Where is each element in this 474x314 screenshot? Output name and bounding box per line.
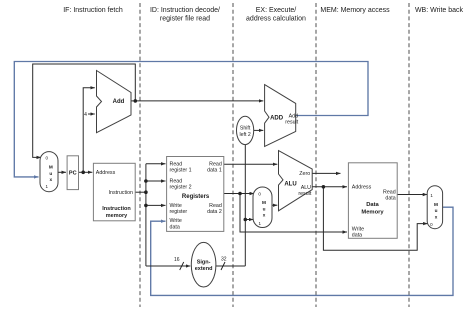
wire sign-extend to ALU mux input 1 — [245, 219, 253, 221]
wire PC mux to PC — [58, 171, 67, 173]
svg-text:left 2: left 2 — [239, 132, 250, 138]
mux M2 (ALU source) — [253, 187, 272, 228]
wire PC+4 feedback to PC mux input 0 — [33, 64, 136, 157]
svg-text:Instruction: Instruction — [109, 190, 133, 196]
svg-text:Shift: Shift — [240, 125, 251, 131]
svg-text:register: register — [170, 209, 188, 215]
svg-text:data: data — [352, 233, 362, 239]
junction ALU result — [322, 185, 326, 189]
svg-text:M: M — [49, 165, 53, 170]
wire read data 1 to ALU — [224, 163, 277, 165]
junction Add output — [134, 99, 138, 103]
wire to sign-extend — [146, 265, 190, 267]
wire data memory read data to WB mux input 1 — [397, 194, 427, 196]
svg-text:Address: Address — [96, 170, 116, 176]
ALU — [279, 151, 313, 211]
wire Add output stub — [131, 100, 135, 102]
svg-text:Instruction: Instruction — [102, 206, 131, 212]
svg-text:u: u — [263, 206, 266, 211]
svg-text:MEM: Memory access: MEM: Memory access — [320, 7, 390, 14]
svg-text:IF: Instruction fetch: IF: Instruction fetch — [63, 7, 123, 14]
svg-text:data 2: data 2 — [207, 209, 222, 215]
svg-text:u: u — [435, 208, 438, 213]
svg-text:ALU: ALU — [284, 181, 296, 187]
junction instruction bus instruction — [144, 190, 148, 194]
svg-text:register 2: register 2 — [170, 185, 192, 191]
mux M1 (PC source) — [40, 152, 58, 192]
shift left 2 unit — [237, 116, 254, 144]
wire to write register — [146, 204, 166, 206]
wire write-back (blue): WB mux output to Registers write data — [151, 207, 453, 295]
wire 4 to Add input — [88, 113, 95, 115]
wire shift left 2 to branch adder — [254, 129, 264, 131]
wire ALU result to data memory address — [312, 186, 347, 188]
stage divider MEM/WB — [408, 3, 410, 307]
wire sign-extend bus vertical up to shift left 2 — [244, 145, 246, 266]
svg-text:register 1: register 1 — [170, 168, 192, 174]
svg-text:register file read: register file read — [160, 16, 210, 23]
wire ALU result bypass to WB mux input 0 — [323, 187, 427, 251]
svg-text:PC: PC — [69, 170, 77, 176]
svg-text:x: x — [435, 214, 438, 219]
svg-text:result: result — [285, 119, 298, 125]
wire ALU mux to ALU lower input — [272, 204, 278, 206]
stage divider ID/EX — [232, 3, 234, 307]
wire ALU zero output — [312, 172, 340, 174]
svg-text:data: data — [385, 195, 395, 201]
svg-text:Address: Address — [352, 184, 372, 190]
adder Add (PC+4) — [97, 71, 132, 133]
instruction memory — [93, 163, 135, 221]
svg-text:data: data — [170, 225, 180, 231]
junction sign-extend bus — [244, 218, 248, 222]
junction instruction bus read reg 2 — [144, 179, 148, 183]
svg-text:x: x — [263, 213, 266, 218]
wire sign-extend output to bus — [216, 265, 245, 267]
svg-text:Read: Read — [170, 178, 183, 184]
wire to read register 1 — [146, 163, 166, 165]
svg-text:extend: extend — [195, 266, 213, 272]
svg-text:Read: Read — [170, 161, 183, 167]
wire PC up to Add input — [83, 88, 95, 173]
mux M3 (write-back source) — [427, 186, 442, 229]
wire instruction memory output to instruction bus — [135, 191, 146, 193]
register PC — [67, 156, 78, 190]
wire PC to instruction memory address — [79, 171, 93, 173]
sign-extend unit — [191, 242, 216, 287]
svg-text:u: u — [49, 171, 52, 176]
svg-text:x: x — [49, 177, 52, 182]
data memory — [348, 163, 397, 239]
registers — [167, 157, 224, 232]
svg-text:memory: memory — [106, 213, 128, 219]
svg-text:16: 16 — [174, 257, 180, 263]
stage label ID — [150, 7, 220, 23]
svg-text:Registers: Registers — [182, 194, 210, 200]
svg-text:Add: Add — [113, 99, 125, 105]
wire read data 2 to ALU mux input 0 — [224, 193, 254, 195]
bus width 32 — [221, 257, 227, 271]
svg-text:EX: Execute/: EX: Execute/ — [256, 7, 297, 14]
svg-text:Read: Read — [209, 161, 222, 167]
svg-text:Memory: Memory — [361, 210, 384, 216]
svg-text:data 1: data 1 — [207, 168, 222, 174]
svg-text:Write: Write — [170, 218, 182, 224]
svg-text:ADD: ADD — [270, 116, 284, 122]
wire read data 2 down to data memory write data — [240, 194, 347, 233]
svg-text:ID: Instruction decode/: ID: Instruction decode/ — [150, 7, 220, 14]
svg-text:address calculation: address calculation — [246, 16, 306, 23]
svg-text:Data: Data — [366, 202, 379, 208]
svg-text:M: M — [434, 202, 438, 207]
wire branch-target (blue): Add result to PC mux input 1 — [14, 62, 368, 177]
svg-text:result: result — [298, 191, 311, 197]
svg-text:Write: Write — [352, 227, 364, 233]
stage divider IF/ID — [139, 3, 141, 307]
adder ADD (branch target) — [265, 85, 299, 147]
junction instruction bus write reg — [144, 204, 148, 208]
wire PC+4 to branch adder top input — [135, 100, 263, 102]
svg-text:Write: Write — [170, 203, 182, 209]
junction read data 2 — [238, 192, 242, 196]
svg-text:32: 32 — [221, 257, 227, 263]
wire instruction bus vertical — [145, 164, 147, 266]
stage label EX — [246, 7, 306, 23]
svg-text:WB: Write back: WB: Write back — [415, 7, 464, 14]
svg-text:4: 4 — [84, 112, 87, 118]
junction PC output — [81, 171, 85, 175]
svg-text:M: M — [262, 200, 266, 205]
wire to read register 2 — [146, 180, 166, 182]
svg-text:Zero: Zero — [299, 171, 310, 177]
bus width 16 — [174, 257, 184, 270]
svg-text:Sign-: Sign- — [197, 259, 211, 265]
svg-text:Read: Read — [209, 203, 222, 209]
stage divider EX/MEM — [315, 3, 317, 307]
